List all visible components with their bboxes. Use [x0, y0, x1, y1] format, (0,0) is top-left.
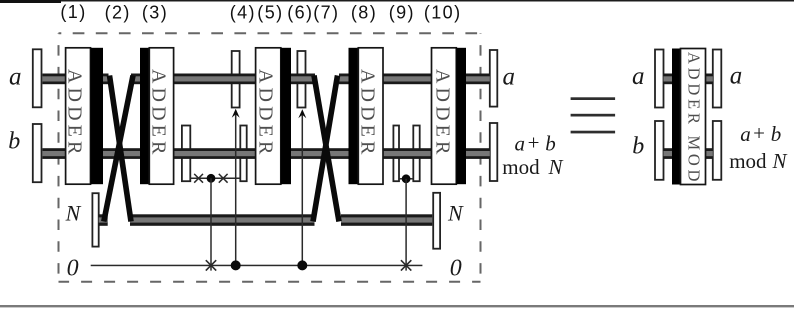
svg-text:a: a [515, 131, 526, 155]
control vertical from gate dot to 0 line [210, 178, 212, 270]
controlled swap gate line between slice rects [191, 177, 241, 179]
compact circuit: input terminal a left [655, 50, 664, 108]
ADDER block U3 black bar [281, 48, 291, 184]
arrow head pointing at rect (6) [298, 109, 306, 118]
equivalence sign line 1 [571, 97, 616, 100]
svg-text:ADDER: ADDER [357, 69, 379, 158]
equivalence sign line 3 [571, 131, 616, 134]
top border thin line [0, 0, 794, 2]
ancilla rect (4) on a-line [232, 51, 240, 108]
target cross on 0 line below gate dot [206, 260, 216, 270]
wire N bus right segment (X2 to N terminal) [341, 214, 432, 226]
wire temporary qubit 0 line [91, 265, 423, 267]
svg-text:(3): (3) [142, 3, 168, 23]
svg-text:mod: mod [502, 155, 540, 179]
svg-text:a: a [740, 122, 751, 146]
ADDER block U2 body [149, 48, 173, 184]
ADDER block U1 black bar [91, 48, 104, 184]
svg-text:b: b [771, 122, 782, 146]
swap cross right [219, 174, 228, 183]
svg-text:(6): (6) [287, 3, 313, 23]
slice rect left of swap-gate pair (between 3 and 5) [182, 126, 190, 182]
svg-text:N: N [65, 201, 82, 226]
svg-text:a: a [632, 63, 645, 90]
svg-text:(2): (2) [105, 3, 131, 23]
svg-text:0: 0 [67, 256, 79, 282]
slice rect left of control pair (9) [393, 126, 399, 182]
compact circuit: wire b stub left [664, 148, 673, 159]
swap X1 diagonal a-to-N [110, 76, 132, 222]
svg-text:(10): (10) [424, 3, 462, 23]
ADDER block U2 (inverse) black bar [140, 48, 174, 184]
register N terminal (left) [92, 193, 98, 246]
svg-text:N: N [447, 201, 464, 226]
control vertical for ancilla rect (6) [301, 115, 303, 266]
control vertical from (9) dot to 0 line [405, 179, 407, 271]
compact circuit: wire a stub left [664, 74, 673, 85]
svg-text:b: b [632, 134, 644, 160]
svg-text:ADDER: ADDER [255, 69, 277, 158]
ancilla rect (6) on a-line [297, 51, 305, 108]
dashed enclosure box [59, 33, 481, 281]
wire a bus segment 3 (X2 to right terminal) [339, 74, 490, 85]
svg-text:N: N [772, 149, 788, 173]
svg-text:(1): (1) [60, 2, 86, 22]
ADDER block U4 body [358, 48, 383, 184]
target cross on 0 line at column (9) [401, 260, 411, 270]
slice rect right of swap-gate pair (between 3 and 5) [240, 126, 246, 182]
bottom rule [0, 305, 794, 307]
wire N bus stub at N terminal [99, 214, 108, 226]
compact circuit: output terminal b right [713, 121, 722, 180]
input terminal register b (left) [33, 124, 42, 182]
svg-text:(5): (5) [257, 3, 283, 23]
swap X2 diagonal a-to-N [314, 76, 339, 222]
ADDER block U3 body [255, 48, 291, 184]
compact circuit: wire a stub right [705, 74, 713, 85]
svg-text:a: a [9, 63, 22, 90]
svg-text:mod: mod [729, 149, 767, 173]
control dot on gate line [207, 174, 216, 183]
svg-text:b: b [545, 131, 556, 155]
ADDER block U1 body [64, 48, 103, 184]
wire b bus [43, 148, 490, 159]
svg-text:N: N [548, 155, 564, 179]
compact circuit: ADDER MOD black bar [672, 49, 706, 186]
control dot on 0 line at (6) [297, 260, 307, 270]
svg-text:0: 0 [450, 255, 462, 281]
svg-text:(8): (8) [351, 3, 377, 23]
equivalence sign line 2 [571, 114, 616, 117]
output terminal register a (right) [490, 50, 498, 107]
control vertical for ancilla rect (4) [235, 115, 237, 266]
compact circuit: input terminal b left [655, 121, 664, 180]
svg-text:(7): (7) [313, 3, 339, 23]
wire N bus middle segment (X1 to X2) [130, 214, 315, 226]
control dot on 0 line at (4) [231, 260, 241, 270]
control line at column (9) [399, 178, 413, 180]
svg-text:(4): (4) [230, 3, 256, 23]
compact circuit: output terminal a right [713, 50, 722, 108]
svg-text:ADDER: ADDER [148, 69, 170, 158]
slice rect right of control pair (9) [413, 126, 419, 182]
svg-text:a: a [503, 63, 516, 90]
compact circuit: ADDER MOD body [681, 49, 706, 185]
svg-text:ADDER MOD: ADDER MOD [684, 52, 703, 185]
wire a bus segment 2 (X1 to X2) [131, 74, 315, 85]
svg-text:a: a [730, 63, 743, 90]
ADDER block U5 black bar [456, 48, 466, 184]
arrow head pointing at rect (4) [232, 109, 240, 118]
swap cross left [194, 174, 203, 183]
svg-text:+: + [753, 121, 765, 145]
wire a bus segment 1 (terminal to X1) [43, 74, 109, 85]
svg-text:+: + [528, 130, 540, 154]
control dot at column (9) [402, 174, 411, 183]
swap X2 diagonal N-to-a [313, 76, 338, 222]
top border thick segment [0, 0, 61, 3]
compact circuit: wire b stub right [705, 148, 713, 159]
ADDER block U4 (inverse) black bar [349, 48, 384, 184]
svg-text:b: b [8, 128, 20, 154]
svg-text:ADDER: ADDER [64, 69, 86, 158]
swap X1 diagonal N-to-a [104, 76, 133, 222]
svg-text:(9): (9) [389, 3, 415, 23]
input terminal register a (left) [33, 49, 42, 107]
register N terminal (right) [433, 193, 440, 249]
ADDER block U5 body [431, 48, 466, 184]
output terminal register b (right) [490, 123, 498, 181]
svg-text:ADDER: ADDER [431, 69, 453, 158]
